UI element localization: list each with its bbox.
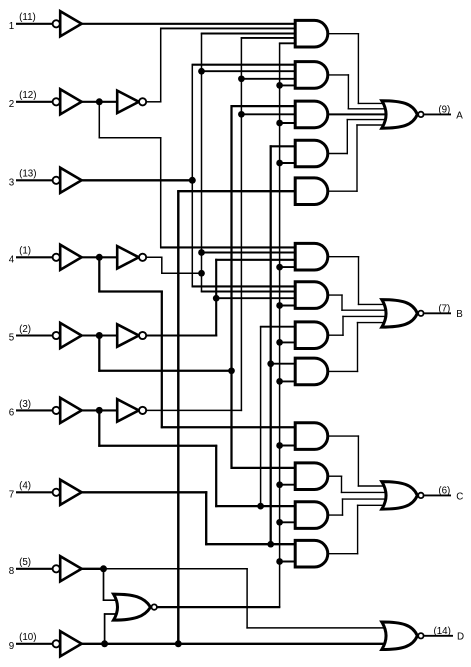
AND gate B3: [295, 322, 328, 349]
wire AND A5 output to junction: [327, 190, 358, 192]
wire net 7 vertical bus: [270, 145, 272, 545]
wire AND A5 output to OR input: [356, 124, 390, 126]
wire AND C1 output to OR input: [358, 485, 391, 487]
buffer input 8: [53, 556, 82, 581]
junction net 4 tap: [96, 254, 103, 261]
wire AND A2 output to junction: [327, 74, 349, 76]
svg-text:(13): (13): [19, 169, 36, 180]
svg-text:(9): (9): [438, 105, 450, 116]
wire net NOT4 jog down: [161, 257, 163, 274]
wire output C: [424, 494, 451, 496]
junction net NOR89 C1 tap: [276, 442, 283, 449]
wire net 6 drop: [98, 410, 100, 446]
wire net NOT5 inverter output: [146, 334, 217, 336]
junction net NOT6 A2 tap: [238, 75, 245, 82]
wire AND B2 output riser: [341, 294, 343, 311]
wire AND B3 output to OR input: [342, 315, 390, 317]
junction net NOR89 A3 tap: [276, 120, 283, 127]
wire net NOR89 to AND C3 pin in2: [280, 521, 297, 523]
svg-text:B: B: [456, 309, 463, 320]
wire net 4 vertical: [161, 291, 163, 429]
wire net NOT6 to AND A1 pin in4: [241, 37, 297, 39]
wire net NOT4 to AND A2 pin in2: [202, 70, 297, 72]
wire net 9 buffer output to OR D pin in2: [81, 643, 390, 645]
wire AND A4 output to junction: [327, 153, 348, 155]
wire net 2 drop: [98, 102, 100, 139]
wire net NOT4 vertical bus: [201, 33, 203, 292]
wire net NOR89 output: [157, 606, 280, 608]
wire net NOR89 to AND A3 pin in3: [280, 122, 297, 124]
wire net NOT5 to AND B1 pin in3: [215, 259, 296, 261]
AND gate B1: [295, 243, 328, 270]
svg-text:(3): (3): [19, 399, 31, 410]
wire net 2 bus down: [160, 137, 162, 248]
wire input 3 lead: [16, 179, 53, 181]
AND gate C3: [295, 502, 328, 529]
inverter input 4 second stage: [117, 246, 146, 268]
wire input 4 lead: [16, 256, 53, 258]
wire AND A2 output riser: [347, 74, 349, 109]
wire AND A1 output to junction: [327, 33, 359, 35]
svg-text:1: 1: [9, 21, 14, 32]
junction net NOR89 B1 tap: [276, 264, 283, 271]
wire output A: [424, 113, 451, 115]
wire net 9 rise to NOR: [104, 613, 106, 644]
inverter input 2 second stage: [117, 91, 146, 113]
wire net 7 to AND A4 pin in1: [270, 145, 297, 147]
svg-text:(2): (2): [19, 324, 31, 335]
junction net 7 C4 tap: [267, 541, 274, 548]
junction net 9 NOR tap: [101, 640, 108, 647]
wire net NOT4 inverter output: [146, 256, 163, 258]
junction net NOR89 C3 tap: [276, 519, 283, 526]
wire net NOR89 to AND A1 pin in5: [279, 42, 297, 44]
OR gate output B: [382, 300, 424, 328]
svg-text:7: 7: [9, 489, 14, 500]
wire net 5 vertical bus: [230, 105, 232, 469]
wire net 5 to AND C2 pin in1: [231, 467, 297, 469]
wire AND C2 output to OR input: [341, 491, 391, 493]
wire net NOT6 vertical bus: [240, 37, 242, 411]
wire net 2 to AND B1 pin in1: [160, 246, 297, 248]
wire AND B4 output to OR input: [357, 322, 391, 324]
wire net NOT6 to AND A3 pin in2: [241, 113, 296, 115]
AND gate B2: [295, 282, 328, 309]
junction net 7 B4 tap: [267, 360, 274, 367]
wire net NOR89 to AND B2 pin in4: [280, 305, 297, 307]
buffer input 1: [53, 11, 82, 36]
wire AND C3 output riser: [342, 498, 344, 515]
svg-text:(1): (1): [19, 246, 31, 257]
wire AND A3 output to OR A pin in3: [327, 113, 391, 115]
wire net NOT5 to AND B2 pin in3: [216, 297, 296, 299]
wire AND B2 output to junction: [327, 294, 343, 296]
AND gate B4: [295, 358, 328, 385]
junction net NOR89 C2 tap: [276, 481, 283, 488]
junction net 6 B3 tap: [257, 503, 264, 510]
OR gate output A: [382, 101, 424, 129]
buffer input 6: [53, 398, 82, 423]
wire input 9 lead: [16, 643, 53, 645]
wire net NOT4 to AND A1 pin in3: [201, 33, 297, 35]
wire net NOR89 to AND B3 pin in2: [280, 341, 297, 343]
wire output B: [424, 312, 451, 314]
wire net 6 buffer to inverter: [81, 409, 118, 411]
wire net 2 buffer to inverter: [81, 101, 118, 103]
wire net NOR89 vertical bus: [279, 43, 281, 608]
wire AND C3 output to OR input: [342, 498, 391, 500]
wire net NOR89 to AND A4 pin in2: [280, 162, 297, 164]
wire net NOT2 to AND A1 pin in2: [160, 27, 297, 29]
wire net 6 to AND C3 pin in1: [215, 505, 296, 507]
wire net 7 to AND C4 pin in1: [205, 543, 296, 545]
wire input 1 lead: [16, 23, 53, 25]
junction net NOR89 B3 tap: [276, 339, 283, 346]
junction net NOT4 feed tap: [198, 270, 205, 277]
wire net NOT6 inverter output: [146, 409, 242, 411]
wire input 8 lead: [16, 568, 53, 570]
wire AND A2 output to OR input: [348, 108, 391, 110]
junction net NOT4 B1 tap: [198, 249, 205, 256]
wire net 8 right segment: [104, 568, 248, 570]
wire AND C2 output to junction: [327, 475, 342, 477]
junction net 9 bus tap: [175, 640, 182, 647]
svg-text:2: 2: [9, 99, 14, 110]
wire input 2 lead: [16, 101, 53, 103]
OR gate output C: [382, 482, 424, 510]
OR gate output D: [382, 622, 424, 650]
buffer input 7: [53, 480, 82, 505]
svg-text:(11): (11): [19, 12, 36, 23]
junction net 3 bus tap: [189, 177, 196, 184]
NOR gate 8 9: [114, 594, 157, 620]
svg-text:D: D: [457, 632, 464, 643]
wire AND B3 output riser: [342, 316, 344, 336]
wire net 6 vertical: [215, 445, 217, 507]
AND gate A4: [295, 140, 328, 167]
wire AND C1 output riser: [357, 435, 359, 486]
buffer input 2: [53, 89, 82, 114]
junction net NOR89 A2 tap: [276, 82, 283, 89]
wire net 9 to NOR pin in2: [104, 613, 122, 615]
wire net 4 jog right: [98, 290, 163, 292]
wire net 8 buffer output: [81, 568, 105, 570]
wire net 5 buffer to inverter: [81, 334, 118, 336]
wire net NOT2 riser: [160, 28, 162, 103]
wire net NOT4 jog right: [161, 272, 202, 274]
wire net NOR89 to AND B4 pin in2: [280, 380, 297, 382]
wire net 5 jog right: [98, 370, 231, 372]
svg-text:C: C: [456, 491, 463, 502]
svg-text:4: 4: [9, 254, 15, 265]
junction net NOT4 A2 tap: [198, 68, 205, 75]
AND gate C2: [295, 463, 328, 490]
wire AND C2 output riser: [341, 476, 343, 494]
junction net NOR89 C4 tap: [276, 558, 283, 565]
wire net NOT2 inverter output: [146, 101, 161, 103]
wire AND B4 output to junction: [327, 370, 358, 372]
svg-text:9: 9: [9, 641, 14, 652]
svg-text:A: A: [456, 110, 463, 121]
wire net 8 jog down to D: [246, 568, 248, 629]
wire AND B1 output to OR input: [358, 303, 391, 305]
svg-text:3: 3: [9, 177, 15, 188]
AND gate A3: [295, 101, 328, 128]
AND gate C4: [295, 540, 328, 567]
inverter input 5 second stage: [117, 324, 146, 346]
wire AND C4 output to junction: [327, 553, 359, 555]
wire net 2 jog: [99, 137, 162, 139]
wire net 3 to AND B2 pin in1: [192, 285, 297, 287]
wire AND A1 output riser: [357, 33, 359, 104]
wire net NOT6 to AND A2 pin in3: [241, 78, 296, 80]
buffer input 4: [53, 245, 82, 270]
wire AND C4 output riser: [357, 505, 359, 555]
wire net 3 vertical bus: [191, 64, 193, 287]
wire net 3 buffer output: [81, 179, 192, 181]
wire net 8 drop to NOR: [103, 569, 105, 601]
wire net NOR89 to AND A2 pin in4: [280, 84, 297, 86]
AND gate A5: [295, 178, 328, 205]
wire net 4 drop: [98, 257, 100, 292]
junction net 5 feed tap: [228, 367, 235, 374]
wire input 5 lead: [16, 334, 53, 336]
wire AND B2 output to OR input: [341, 309, 390, 311]
svg-text:(7): (7): [438, 304, 450, 315]
wire net NOR89 to AND C1 pin in2: [280, 445, 297, 447]
wire net 9 to AND A5 pin in1: [177, 190, 296, 192]
wire AND A4 output to OR input: [347, 119, 391, 121]
wire net 8 to NOR pin in1: [103, 599, 122, 601]
wire output D: [424, 635, 453, 637]
wire net 9 vertical bus: [177, 190, 179, 645]
wire net 7 jog down: [205, 491, 207, 545]
svg-text:(6): (6): [438, 486, 450, 497]
junction net 5 tap: [96, 332, 103, 339]
wire AND B3 output to junction: [327, 334, 344, 336]
wire net NOT4 to AND B1 pin in2: [202, 252, 297, 254]
wire net 7 buffer output: [81, 491, 207, 493]
wire net 1 to AND A1 pin in1: [81, 23, 297, 25]
svg-text:(12): (12): [19, 90, 36, 101]
junction net NOR89 B4 tap: [276, 378, 283, 385]
inverter input 6 second stage: [117, 399, 146, 421]
junction net 6 tap: [96, 407, 103, 414]
wire AND B1 output riser: [358, 256, 360, 305]
wire net NOT4 to AND B2 pin in2: [201, 291, 297, 293]
AND gate A1: [295, 20, 328, 47]
wire AND A1 output to OR input: [358, 102, 391, 104]
wire net NOR89 to AND C2 pin in2: [280, 484, 297, 486]
junction net NOR89 A4 tap: [276, 160, 283, 167]
wire AND C3 output to junction: [327, 514, 343, 516]
wire net 4 to AND C1 pin in1: [161, 426, 297, 428]
wire net NOR89 to AND C4 pin in2: [280, 561, 297, 563]
wire AND B4 output riser: [357, 322, 359, 372]
wire net 6 branch to B3: [260, 326, 262, 506]
buffer input 3: [53, 168, 82, 193]
svg-text:(14): (14): [433, 626, 450, 637]
svg-text:8: 8: [9, 566, 15, 577]
wire net 4 buffer to inverter: [81, 256, 118, 258]
wire net 8 to OR D pin in1: [246, 627, 390, 629]
svg-text:(10): (10): [19, 632, 36, 643]
AND gate C1: [295, 423, 328, 450]
svg-text:6: 6: [9, 408, 15, 419]
junction net 2 tap: [96, 98, 103, 105]
wire net 6 jog right: [98, 445, 217, 447]
svg-text:(5): (5): [19, 557, 31, 568]
wire input 7 lead: [16, 491, 53, 493]
wire AND B1 output to junction: [327, 256, 359, 258]
wire net NOR89 to AND B1 pin in4: [280, 266, 297, 268]
buffer input 5: [53, 323, 82, 348]
junction net 8 tap: [100, 565, 107, 572]
wire AND A4 output riser: [346, 119, 348, 154]
wire net 5 to AND A3 pin in1: [231, 105, 297, 107]
wire net 6 to AND B3 pin in1: [260, 326, 297, 328]
wire net 3 to AND A2 pin in1: [192, 64, 297, 66]
svg-text:5: 5: [9, 333, 15, 344]
junction net NOT5 B2 tap: [213, 295, 220, 302]
junction net NOR89 B2 tap: [276, 302, 283, 309]
wire AND A5 output riser: [356, 124, 358, 192]
wire net NOT5 riser: [215, 259, 217, 337]
buffer input 9: [53, 631, 82, 656]
wire net 7 to AND B4 pin in1: [271, 363, 297, 365]
junction net NOT6 A3 tap: [238, 111, 245, 118]
svg-text:(4): (4): [19, 481, 31, 492]
wire net 5 drop: [98, 336, 100, 372]
wire input 6 lead: [16, 409, 53, 411]
wire AND C4 output to OR input: [357, 504, 391, 506]
wire AND C1 output to junction: [327, 435, 359, 437]
AND gate A2: [295, 62, 328, 89]
